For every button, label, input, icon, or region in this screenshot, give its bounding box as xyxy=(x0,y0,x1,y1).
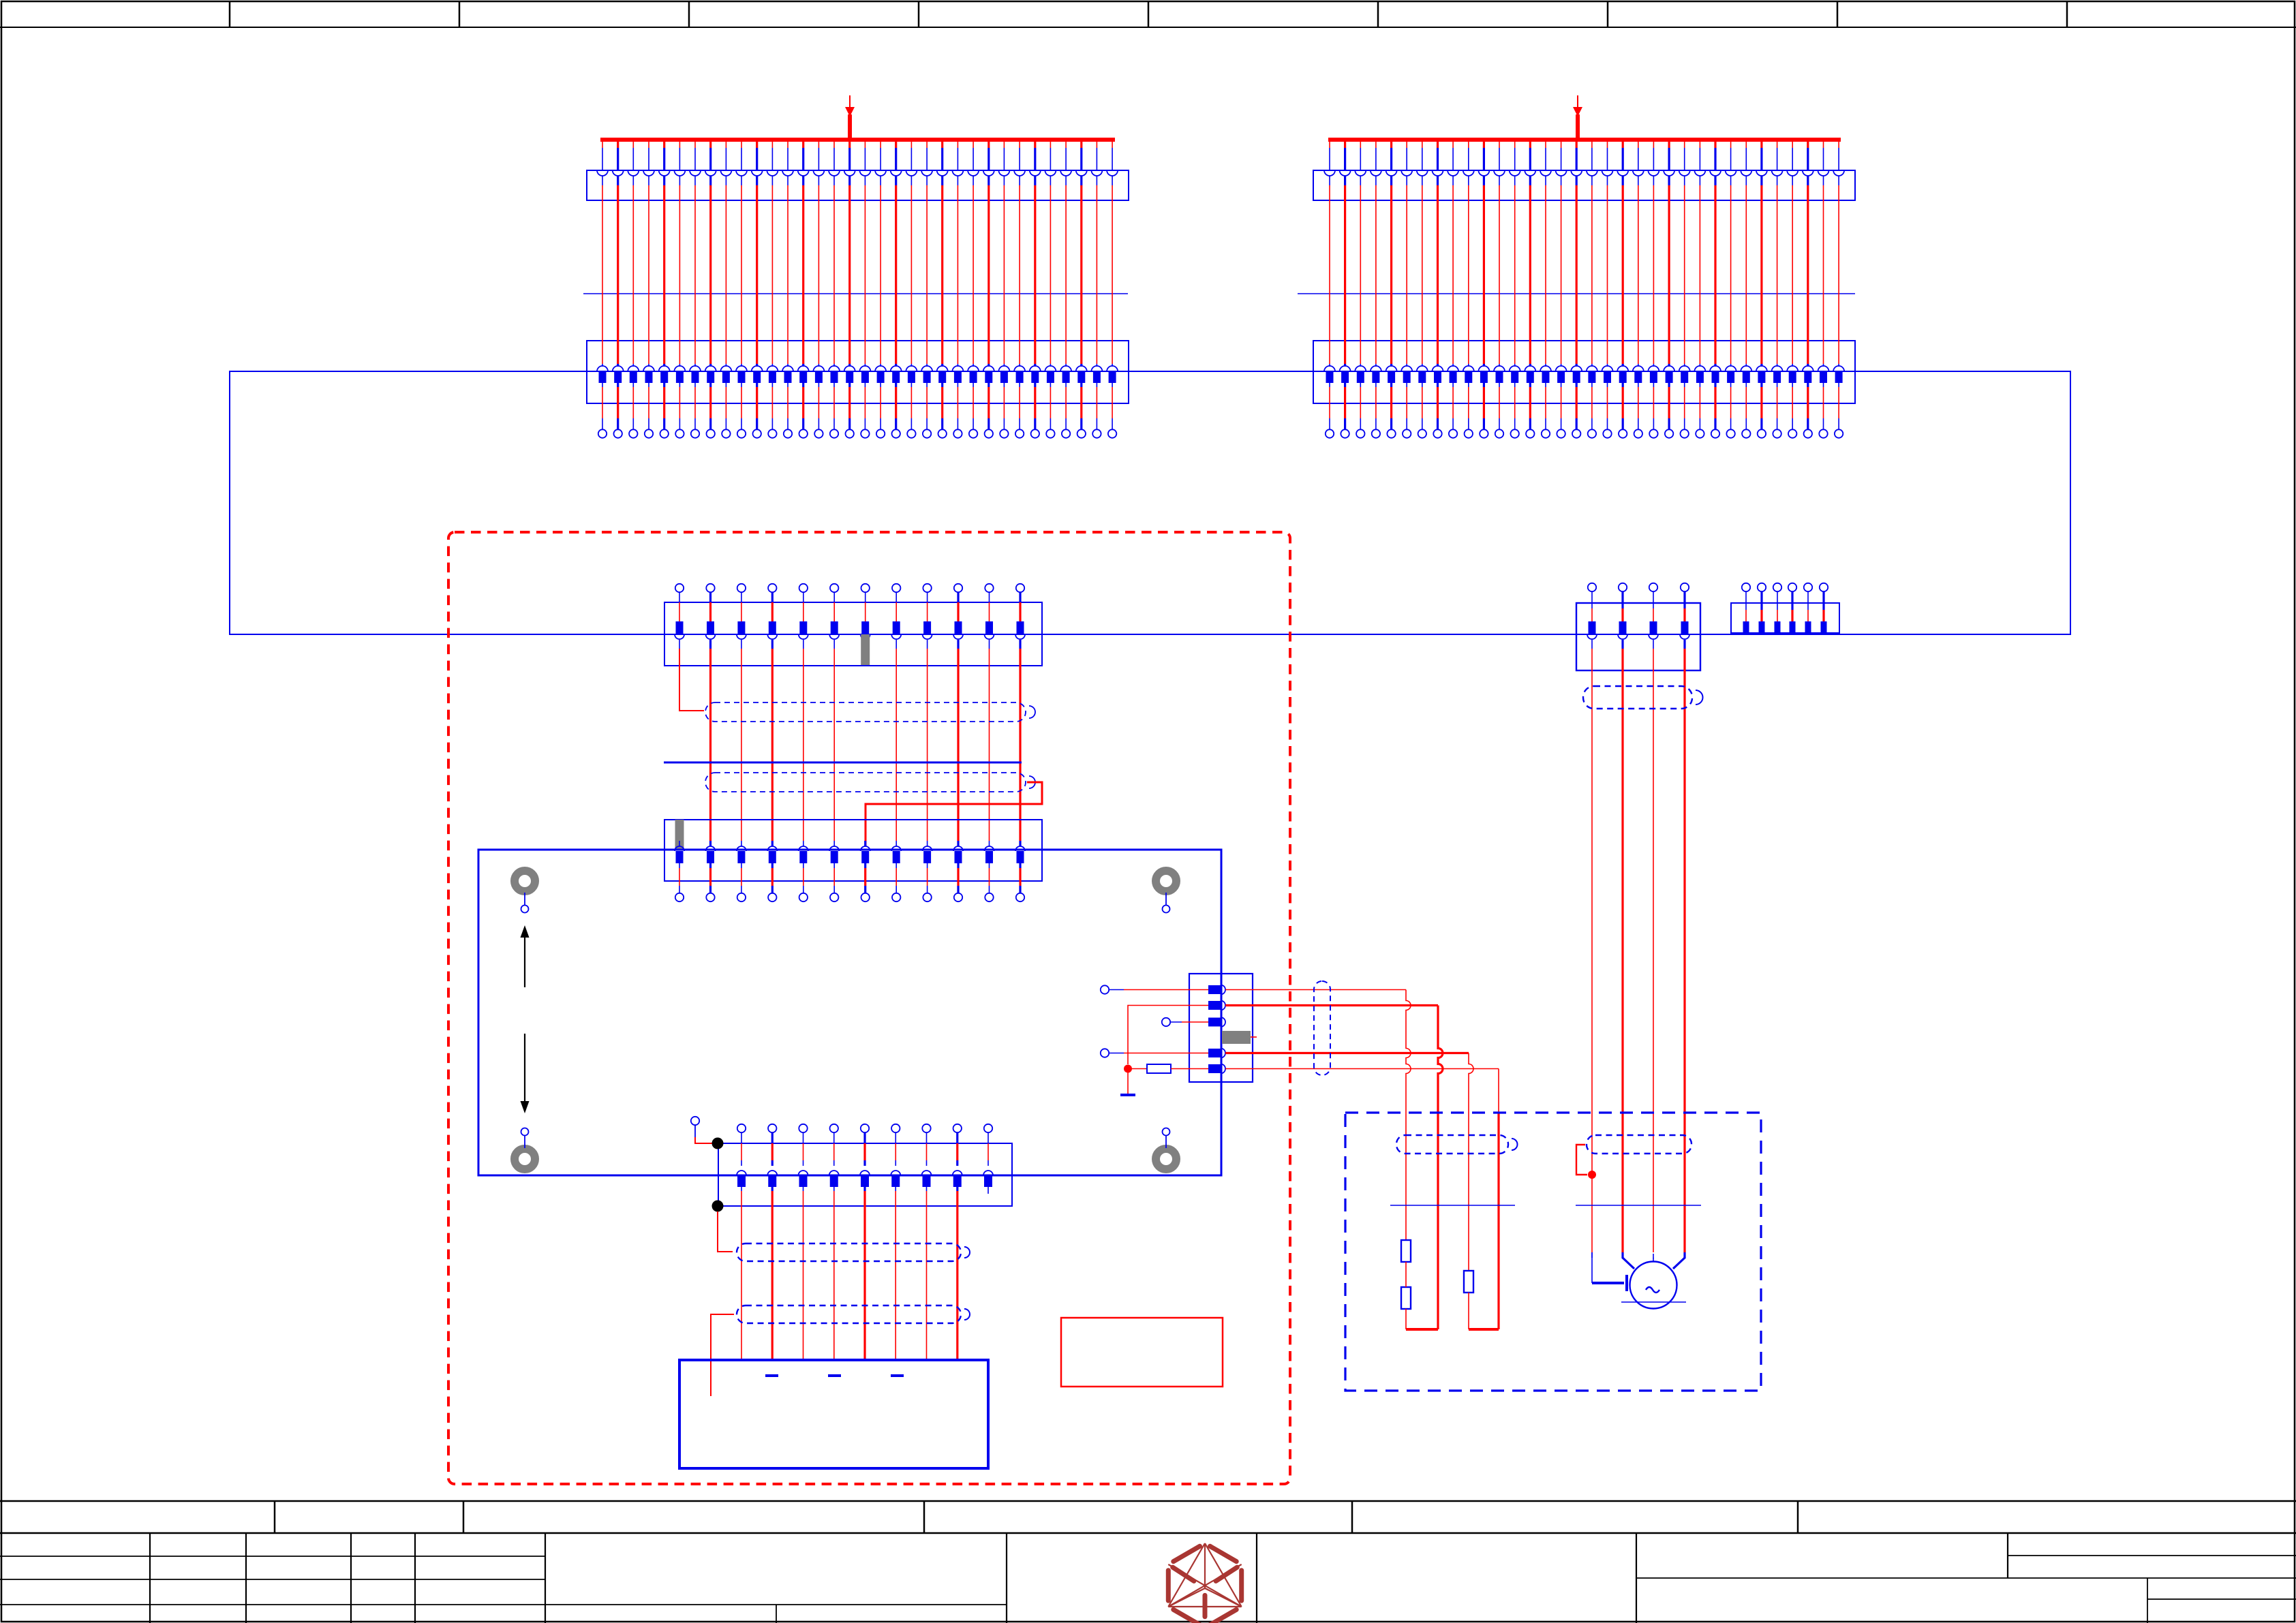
ground symbol xyxy=(1127,1072,1129,1094)
X6 pins (5 blade contacts with sockets) xyxy=(1208,985,1221,994)
motor wire 1 (to terminal bar) xyxy=(1591,1252,1593,1283)
title block left table verticals xyxy=(149,1533,151,1623)
wire X6 pin4 to R-chain 3 xyxy=(1225,1052,1469,1054)
junction dot (X5 bottom-left) xyxy=(712,1201,724,1212)
R-chain bottom link 1 xyxy=(1406,1328,1438,1331)
X4 polarization key (gray, position 1) xyxy=(675,820,684,849)
cable separator line xyxy=(664,762,1022,764)
red label box xyxy=(1061,1318,1223,1387)
X4 contact columns xyxy=(675,841,684,901)
motor baseline xyxy=(1621,1301,1686,1303)
X6 terminal circle pin3 xyxy=(1162,1018,1170,1026)
shield B drain wire into battery unit xyxy=(711,1314,734,1396)
PCB board outline xyxy=(478,850,1221,1175)
supply feed arrow (right) xyxy=(1577,95,1578,108)
resistor R2 xyxy=(1401,1240,1411,1262)
X3 wires down to cable shield xyxy=(709,640,711,649)
resistor R3 xyxy=(1401,1287,1411,1309)
wire pin2 to junction xyxy=(1128,1006,1208,1065)
title block top line xyxy=(0,1500,2296,1502)
cable shield symbol (vertical, sensor cable) xyxy=(1314,981,1330,1075)
connector housing X2 lower row (right array) xyxy=(1313,341,1855,403)
battery cell mark 3 xyxy=(891,1374,904,1377)
series resistor R1 xyxy=(1132,1068,1147,1070)
X2 contact columns (34 wires, right array) xyxy=(1324,142,1335,438)
orientation arrow down xyxy=(524,1034,525,1104)
wire X6 pin2 to R-chain 2 (thick) xyxy=(1225,1004,1438,1006)
long blue interconnect wire (loop from X1 row to middle connector to X2 row) xyxy=(230,371,2070,634)
shield drain wire to X4 pin7 xyxy=(866,782,1042,846)
R-chain bottom link 2 xyxy=(1469,1328,1499,1331)
connector X5 10-pin housing (board bottom edge) xyxy=(718,1143,1012,1206)
connector X8 6-pin housing xyxy=(1731,603,1839,633)
cable shield symbol (upper) xyxy=(705,702,1026,722)
connector housing X1 upper row (left array) xyxy=(587,170,1129,200)
motor cable blue tails xyxy=(1591,1252,1593,1258)
X5 contact columns xyxy=(737,1124,746,1187)
cable shield symbol (motor cable, below X7) xyxy=(1583,686,1692,709)
connector housing X2 upper row (right array) xyxy=(1313,170,1855,200)
supply feed arrow (left) xyxy=(849,95,851,108)
orientation arrow up xyxy=(524,935,525,987)
top band zone dividers xyxy=(229,1,231,27)
connector housing X1 lower row (left array) xyxy=(587,341,1129,403)
title block left table horizontals xyxy=(0,1556,545,1557)
R-chain vertical wire 2 (thick, with hops) xyxy=(1438,1006,1443,1330)
title block right area lines xyxy=(1636,1533,1637,1623)
wire X6 pin1 to R-chain 1 xyxy=(1225,989,1406,991)
motor wire 2 xyxy=(1623,1258,1634,1269)
cable shield symbol A (battery cable) xyxy=(737,1243,961,1261)
mounting hole bottom-left xyxy=(515,1149,535,1169)
separator line (right array) xyxy=(1298,293,1855,294)
motor M1 (circle with ~) xyxy=(1630,1262,1677,1309)
wire X6 pin5 to R-chain 4 (thick) xyxy=(1225,1068,1499,1070)
battery cell mark 1 xyxy=(765,1374,778,1377)
X6 terminal circle pin1 xyxy=(1101,985,1109,993)
cable shield symbol (lower) xyxy=(705,773,1026,792)
X3 polarization key (gray, position 7) xyxy=(861,634,870,665)
mounting hole top-left xyxy=(515,871,535,891)
junction dot (red) xyxy=(1124,1065,1132,1073)
separator line (motor group) xyxy=(1576,1205,1701,1206)
motor wire 3 xyxy=(1653,1258,1654,1262)
X6 terminal circle pin4 xyxy=(1101,1049,1109,1057)
X1 contact columns (34 wires, left array) xyxy=(597,142,608,438)
X6 polarization key (gray) xyxy=(1222,1031,1251,1044)
battery cell mark 2 xyxy=(828,1374,841,1377)
X5 shield terminal circle xyxy=(691,1117,699,1125)
connector X4 lower 12-pin housing xyxy=(664,820,1042,881)
cable shield (motor cable, in unit) xyxy=(1587,1135,1692,1154)
X8 contact columns xyxy=(1742,583,1750,591)
red supply bus bar (right array) xyxy=(1328,138,1841,142)
title block second line xyxy=(0,1532,2296,1534)
junction dot (X5 top-left) xyxy=(712,1138,724,1149)
R-chain vertical wire 1 (with hops) xyxy=(1406,990,1411,1241)
R-chain vertical wire 3 (with hop) xyxy=(1469,1053,1473,1271)
cable shield symbol (sensor cable, horizontal) xyxy=(1396,1135,1508,1154)
X3 contact columns xyxy=(675,584,684,639)
X7 contact columns xyxy=(1588,583,1596,591)
shield drain to lower cable shield A xyxy=(718,1211,733,1252)
battery unit box xyxy=(679,1360,988,1468)
connector X6 5-pin housing (board right edge) xyxy=(1189,974,1253,1082)
mounting hole bottom-right xyxy=(1156,1149,1176,1169)
dashed blue enclosure (motor/sensor unit) xyxy=(1345,1113,1761,1391)
separator line (sensor group) xyxy=(1390,1205,1515,1206)
cable shield symbol B (battery cable) xyxy=(737,1305,961,1323)
mounting hole top-right xyxy=(1156,871,1176,891)
title block upper band dividers xyxy=(274,1501,276,1533)
R-chain vertical wire 4 (thick) xyxy=(1498,1069,1499,1113)
motor wire 4 xyxy=(1673,1258,1685,1269)
shield drain loop with junction dot xyxy=(1576,1145,1587,1175)
connector X3 upper 12-pin housing xyxy=(664,602,1042,666)
red supply bus bar (left array) xyxy=(600,138,1115,142)
connector X7 4-pin housing xyxy=(1576,603,1700,670)
resistor R4 xyxy=(1464,1271,1473,1293)
X5 wires down to battery unit xyxy=(741,1187,742,1191)
X3 pin1 shield drain wire xyxy=(679,640,680,649)
company logo (icosahedron emblem) xyxy=(1168,1543,1241,1623)
separator line (left array) xyxy=(583,293,1128,294)
top margin band line xyxy=(0,27,2296,28)
dashed red enclosure box (main unit) xyxy=(448,532,1290,1484)
